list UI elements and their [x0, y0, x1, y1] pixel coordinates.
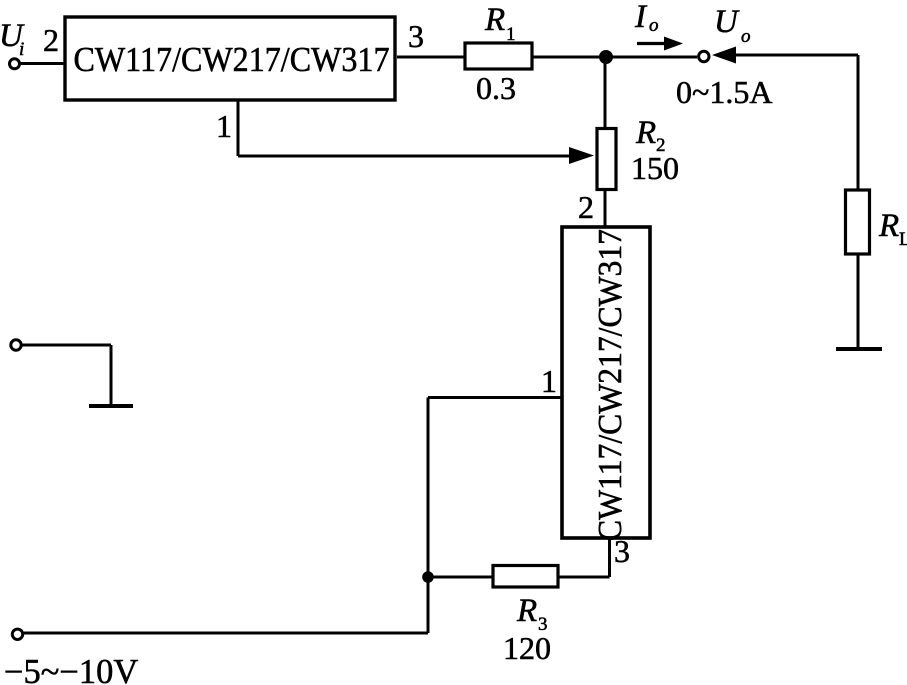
- resistor R2 adjustable: [597, 129, 616, 190]
- svg-text:1: 1: [541, 363, 557, 399]
- arrow into Uo from load wire: [712, 47, 858, 64]
- label R3: [516, 593, 548, 635]
- wire U2 pin1 left: [428, 396, 562, 399]
- svg-text:1: 1: [506, 24, 516, 45]
- wire R1 to node A: [532, 56, 605, 59]
- regulator U1 CW117/CW217/CW317: [65, 17, 395, 100]
- svg-text:2: 2: [578, 189, 594, 225]
- ground left: [89, 404, 133, 408]
- svg-text:o: o: [649, 15, 659, 36]
- wire node A down to R2: [604, 57, 607, 128]
- resistor R1: [465, 43, 532, 69]
- wire terminal to ground: [21, 344, 111, 347]
- arrow Io direction: [637, 37, 683, 51]
- wire down right side to RL: [857, 55, 860, 190]
- svg-text:−5~−10V: −5~−10V: [4, 653, 138, 685]
- label RL: [878, 208, 907, 250]
- svg-text:150: 150: [631, 150, 679, 186]
- node B junction: [422, 571, 434, 583]
- svg-text:0~1.5A: 0~1.5A: [676, 74, 772, 110]
- svg-text:o: o: [741, 26, 751, 47]
- svg-text:R: R: [484, 2, 505, 38]
- svg-text:R: R: [516, 593, 537, 629]
- wire RL to ground: [857, 254, 860, 349]
- svg-text:3: 3: [614, 533, 630, 569]
- wire node B to R3: [428, 576, 492, 579]
- svg-text:R: R: [635, 115, 656, 151]
- label Ui: [0, 18, 25, 60]
- terminal ground branch: [11, 340, 21, 350]
- regulator U2 CW117/CW217/CW317 vertical: [562, 227, 650, 541]
- svg-text:U: U: [714, 4, 740, 40]
- svg-text:L: L: [899, 229, 907, 250]
- resistor RL: [846, 190, 870, 254]
- wire Ui to regulator 1: [19, 62, 65, 65]
- wire pin1 to R2 wiper arrow: [238, 147, 594, 164]
- wire U1 pin3 to R1: [397, 56, 465, 59]
- label R2: [635, 115, 666, 156]
- svg-text:CW117/CW217/CW317: CW117/CW217/CW317: [74, 41, 390, 79]
- svg-text:3: 3: [408, 18, 424, 54]
- svg-text:CW117/CW217/CW317: CW117/CW217/CW317: [592, 229, 629, 541]
- svg-text:0.3: 0.3: [476, 70, 516, 106]
- svg-text:120: 120: [503, 630, 551, 666]
- resistor R3: [493, 566, 558, 588]
- svg-text:1: 1: [216, 108, 232, 144]
- wire R3 to U2 pin3: [559, 576, 610, 579]
- label Io: [634, 0, 659, 36]
- label R1: [484, 2, 516, 45]
- svg-text:I: I: [634, 0, 648, 35]
- wire node A to Uo: [605, 56, 697, 59]
- terminal Uo output: [699, 51, 709, 61]
- label Uo: [714, 4, 751, 47]
- svg-text:i: i: [19, 39, 24, 60]
- wire down left branch: [427, 398, 430, 634]
- ground right: [836, 347, 882, 351]
- wire U1 pin1 down: [237, 100, 240, 156]
- svg-text:2: 2: [43, 22, 59, 58]
- terminal negative supply: [12, 629, 22, 639]
- terminal Ui input: [10, 59, 20, 69]
- svg-text:R: R: [878, 208, 899, 244]
- wire negative supply to node B branch: [22, 632, 428, 635]
- wire R2 to U2 pin2: [604, 190, 607, 227]
- node A junction: [599, 50, 613, 64]
